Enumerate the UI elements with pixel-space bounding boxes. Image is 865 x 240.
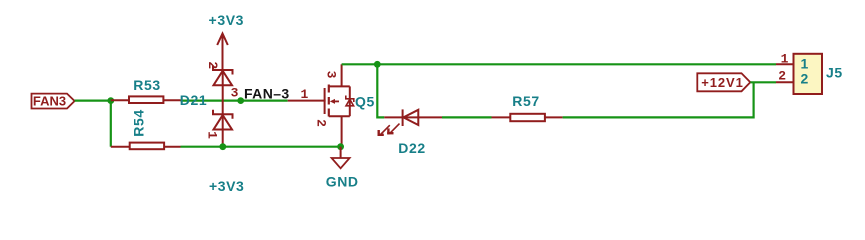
resistor R54 <box>111 143 181 150</box>
svg-text:J5: J5 <box>826 64 843 80</box>
junction FAN-3 node <box>237 97 244 104</box>
junction at FAN3 node <box>107 97 114 104</box>
wire drain top row <box>342 63 776 65</box>
wire FAN3 to junction <box>75 99 111 101</box>
zener diode D21 bottom half <box>213 101 233 147</box>
connector J5 <box>776 54 822 94</box>
wire +12V1 to J5 pin2 <box>750 81 776 83</box>
resistor R57 <box>492 114 563 121</box>
svg-text:+3V3: +3V3 <box>209 178 245 191</box>
junction drain node <box>374 61 381 68</box>
svg-text:FAN3: FAN3 <box>33 94 66 109</box>
svg-text:2: 2 <box>801 71 809 87</box>
LED arrow 1 of D22 <box>378 125 390 136</box>
wire R54 row <box>181 146 341 148</box>
svg-text:2: 2 <box>314 119 329 127</box>
resistor R53 <box>111 96 181 103</box>
wire D22 to R57 <box>442 116 492 118</box>
wire junction down to R54 row <box>110 101 112 147</box>
svg-text:2: 2 <box>205 61 220 69</box>
svg-text:+3V3: +3V3 <box>209 12 245 28</box>
zener diode D21 top half <box>213 66 233 101</box>
svg-text:+12V1: +12V1 <box>701 75 743 90</box>
svg-text:2: 2 <box>778 68 786 83</box>
LED arrow 2 of D22 <box>387 124 399 135</box>
wire gate lead <box>288 100 326 102</box>
wire down to D22 <box>377 64 384 117</box>
svg-text:GND: GND <box>326 174 359 190</box>
svg-text:1: 1 <box>781 51 789 66</box>
net label FAN3 tag <box>32 94 75 109</box>
power +3V3 top <box>209 12 245 70</box>
svg-text:Q5: Q5 <box>355 93 375 109</box>
power tag +12V1 <box>697 73 750 91</box>
svg-text:1: 1 <box>801 55 809 71</box>
wire R53 to FAN-3 node <box>181 99 288 101</box>
svg-text:1: 1 <box>205 131 220 139</box>
svg-text:D22: D22 <box>398 140 425 156</box>
svg-text:R57: R57 <box>512 93 539 109</box>
svg-text:D21: D21 <box>180 92 207 108</box>
svg-text:R54: R54 <box>131 109 147 136</box>
svg-text:FAN–3: FAN–3 <box>244 85 290 101</box>
wire R57 to corner up to pin2 row <box>563 82 754 117</box>
svg-text:R53: R53 <box>133 77 160 93</box>
transistor Q5 <box>325 64 354 146</box>
junction Q5 source node <box>337 143 344 150</box>
svg-text:3: 3 <box>324 71 339 79</box>
ground GND <box>332 147 350 169</box>
svg-text:3: 3 <box>231 86 239 101</box>
diode D22 <box>384 109 442 126</box>
junction D21 bottom node <box>219 143 226 150</box>
